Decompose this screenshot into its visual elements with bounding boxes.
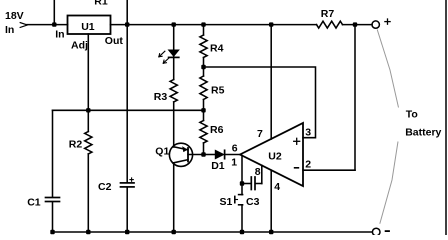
wire feedback node down to pin2	[354, 25, 356, 171]
svg-text:S1: S1	[220, 196, 233, 208]
annotation line from plus terminal	[377, 30, 398, 108]
node S1/C3	[240, 181, 244, 185]
svg-text:18V: 18V	[5, 10, 24, 22]
page border right edge	[445, 0, 447, 235]
regulator U1 box	[68, 16, 111, 35]
svg-text:6: 6	[232, 143, 238, 155]
input arrow	[20, 23, 27, 28]
svg-text:C3: C3	[246, 196, 260, 208]
LED arrows	[159, 51, 169, 63]
resistor R6	[203, 110, 205, 120]
svg-text:In: In	[5, 24, 14, 36]
svg-text:Adj: Adj	[71, 40, 88, 52]
op-amp U2 triangle	[240, 123, 303, 186]
wire C1 branch vertical	[52, 110, 54, 196]
wire pin7 up to rail	[270, 25, 272, 139]
C2 plus mark	[130, 178, 133, 181]
node gnd Q1	[172, 230, 176, 234]
wire input 18V	[27, 24, 68, 26]
node Adj/R2	[86, 108, 90, 112]
svg-text:2: 2	[305, 159, 311, 171]
svg-text:R4: R4	[210, 42, 224, 54]
wire pin4 down to ground rail	[270, 170, 272, 232]
svg-text:R3: R3	[154, 91, 168, 103]
svg-text:R2: R2	[69, 139, 83, 151]
wire U1 Adj vertical	[87, 34, 89, 110]
terminal plus circle	[372, 21, 379, 28]
Q1 collector diagonal	[174, 160, 188, 163]
resistor R7	[317, 21, 343, 28]
node feedback	[353, 22, 357, 26]
svg-text:U1: U1	[81, 21, 95, 33]
ground rail bottom	[53, 231, 373, 233]
svg-text:Out: Out	[105, 35, 124, 47]
svg-text:1: 1	[231, 157, 237, 169]
wire pin2 horizontal	[303, 169, 355, 171]
svg-text:C2: C2	[98, 181, 112, 193]
node LED top	[172, 22, 176, 26]
svg-text:R1: R1	[94, 0, 108, 7]
node out/C2	[125, 22, 129, 26]
svg-text:R5: R5	[211, 84, 225, 96]
minus sign opamp	[295, 167, 299, 169]
wire R4 bottom to pin3	[204, 67, 316, 138]
node R4/R5 pin3 tap	[201, 65, 205, 69]
LED triangle	[169, 50, 179, 56]
Q1 base bar	[187, 148, 189, 162]
svg-text:R6: R6	[210, 124, 224, 136]
node gnd C2	[125, 230, 129, 234]
resistor R1 right leg	[126, 0, 128, 25]
svg-text:8: 8	[255, 166, 261, 178]
plus sign opamp	[294, 138, 300, 144]
wire Q1 base	[188, 154, 204, 156]
capacitor C1	[46, 198, 60, 202]
svg-text:In: In	[55, 29, 64, 41]
wire Adj horizontal node	[53, 109, 204, 111]
transistor Q1	[169, 143, 192, 166]
svg-text:Battery: Battery	[405, 126, 441, 138]
svg-text:To: To	[406, 108, 418, 120]
svg-text:7: 7	[257, 128, 263, 140]
wire pin8 up to hypotenuse	[261, 165, 263, 183]
node R4 top	[201, 22, 205, 26]
terminal minus circle	[372, 228, 380, 236]
svg-text:D1: D1	[211, 160, 225, 172]
wire output rail	[111, 24, 317, 26]
resistor R2	[87, 110, 89, 131]
switch S1	[239, 194, 243, 196]
annotation line from minus terminal	[380, 142, 398, 224]
LED D2 branch	[173, 25, 175, 50]
node gnd S1	[240, 230, 244, 234]
resistor R1 (top, clipped) left leg	[53, 0, 55, 25]
node gnd R2	[86, 230, 90, 234]
node gnd C1	[50, 230, 54, 234]
capacitor C3	[242, 183, 250, 185]
wire R3 to Q1 emitter	[173, 102, 175, 147]
resistor R5	[203, 67, 205, 76]
Q1 emitter diagonal with PNP arrow	[174, 147, 188, 150]
node input/R1	[52, 22, 56, 26]
svg-text:4: 4	[274, 181, 280, 193]
wire R7 to plus terminal	[343, 24, 373, 26]
resistor R3	[170, 80, 177, 103]
node pin7 rail	[269, 22, 273, 26]
wire pin1 down from apex	[241, 156, 243, 195]
node R5/R6	[201, 108, 205, 112]
node gnd pin4	[269, 230, 273, 234]
capacitor C2 branch	[126, 25, 128, 182]
LED cathode bar	[169, 56, 179, 58]
plus sign terminal	[385, 19, 390, 24]
svg-text:C1: C1	[27, 197, 41, 209]
svg-text:R7: R7	[321, 8, 335, 20]
minus sign terminal	[386, 230, 389, 232]
diode D1	[204, 154, 216, 156]
resistor R4	[203, 25, 205, 35]
svg-text:Q1: Q1	[155, 145, 169, 157]
svg-text:U2: U2	[268, 150, 282, 162]
node Q1 base/D1	[201, 152, 205, 156]
svg-text:3: 3	[305, 126, 311, 138]
wire Q1 collector down	[173, 163, 175, 232]
wire LED to R3	[173, 56, 175, 79]
